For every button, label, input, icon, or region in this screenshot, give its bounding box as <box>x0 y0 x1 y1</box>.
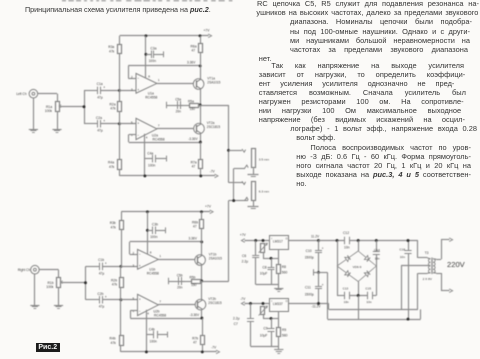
connector Left Ch input <box>29 89 38 98</box>
capacitor C6 2.2u <box>252 241 259 285</box>
svg-text:560: 560 <box>282 271 288 275</box>
svg-text:Left Ch: Left Ch <box>16 92 27 96</box>
svg-text:O: O <box>286 237 288 240</box>
node +7V label psu <box>240 233 247 237</box>
wire U1b pin8 to rail <box>147 212 149 254</box>
svg-text:C14: C14 <box>374 248 380 252</box>
node U2a pin marks <box>131 120 160 139</box>
node C4b labels <box>149 328 157 344</box>
svg-text:10n: 10n <box>366 300 371 304</box>
node R5a labels <box>188 100 195 112</box>
wire bridge left vertex up <box>337 241 339 267</box>
resistor R4a 47k <box>118 124 122 176</box>
svg-text:-3.36V: -3.36V <box>188 137 198 141</box>
svg-text:150: 150 <box>191 283 197 287</box>
node junction C8 tap <box>270 257 273 260</box>
node R6a labels <box>191 44 197 52</box>
node 220V label <box>447 260 466 269</box>
wire U2b output to VT2b <box>158 304 195 306</box>
node voltage label 3.36V <box>187 60 196 64</box>
wire left channel to jacks <box>200 105 243 183</box>
svg-text:C11: C11 <box>305 285 311 289</box>
svg-text:+: + <box>137 88 139 92</box>
svg-text:−: − <box>137 133 139 137</box>
svg-text:-11.2V: -11.2V <box>311 304 321 308</box>
node VT2b labels <box>208 297 222 305</box>
node C2a labels <box>96 116 103 133</box>
svg-text:−: − <box>137 76 139 80</box>
svg-text:R9: R9 <box>282 328 286 332</box>
node junction feedback-R7a <box>199 141 202 144</box>
wire U2a output to VT2a <box>157 128 194 130</box>
capacitor C5b 20n <box>168 277 185 285</box>
capacitor C10 1500u <box>315 241 322 273</box>
svg-text:+: + <box>322 247 324 251</box>
node R4b labels <box>110 337 117 345</box>
node R7a labels <box>191 160 197 168</box>
node -7V label channel a <box>210 169 216 173</box>
wire R1b wiper to C1b/C2b <box>62 266 86 299</box>
trimmer R10 <box>259 306 268 315</box>
svg-text:3.36V: 3.36V <box>187 60 196 64</box>
regulator U4 LM337 <box>270 299 289 319</box>
svg-text:8: 8 <box>150 250 152 254</box>
svg-text:47: 47 <box>191 49 195 53</box>
svg-text:C2b: C2b <box>97 292 103 296</box>
wire psu ground stub <box>314 269 328 319</box>
svg-text:R8: R8 <box>282 265 286 269</box>
svg-text:+7V: +7V <box>205 205 212 209</box>
wire bridge bottom <box>337 266 377 296</box>
resistor R6b 47 <box>200 212 204 242</box>
node bridge label VD6-9 <box>353 265 362 269</box>
node -11.2V label <box>311 304 321 308</box>
node R3b labels <box>110 221 116 229</box>
node R3a labels <box>108 45 114 53</box>
svg-text:+: + <box>322 283 324 287</box>
connector XS1 jack 3.5 mm <box>242 149 256 169</box>
node junction C11 bottom <box>317 302 320 305</box>
ground pot R1b <box>54 287 63 309</box>
wire primary top to mains <box>436 238 452 260</box>
svg-text:10n: 10n <box>375 257 380 261</box>
resistor R5b 150 <box>185 280 202 284</box>
svg-text:100k: 100k <box>46 285 54 289</box>
transistor VT1b 2SA1015 <box>195 242 206 281</box>
svg-text:1: 1 <box>159 254 161 258</box>
node junction rail-U2b pin4 <box>145 350 148 353</box>
diode VD6 <box>337 251 358 266</box>
wire raw dc top <box>319 240 418 242</box>
capacitor C2b <box>86 295 121 304</box>
svg-text:2 X 8V: 2 X 8V <box>423 277 433 281</box>
node voltage label -3.36V <box>188 137 198 141</box>
wire U1a feedback <box>128 66 200 79</box>
svg-text:10n: 10n <box>344 300 349 304</box>
wire U2a pin4 to rail <box>144 134 146 176</box>
svg-text:C15: C15 <box>365 286 371 290</box>
svg-text:+: + <box>105 295 107 299</box>
node C1b labels <box>98 258 104 275</box>
svg-text:C2a: C2a <box>96 116 102 120</box>
node junction C14 top <box>375 239 378 242</box>
node C3a labels <box>149 47 157 63</box>
node VT1a labels <box>207 76 220 84</box>
capacitor C14 10n <box>373 241 380 267</box>
wire +7V rail channel b <box>121 210 213 214</box>
svg-text:C1b: C1b <box>98 258 104 262</box>
node junction psu ground mid <box>317 271 320 274</box>
node U2a name labels <box>152 134 165 142</box>
svg-text:1500µ: 1500µ <box>305 292 314 296</box>
diode VD7 <box>358 251 376 266</box>
svg-text:C5b: C5b <box>177 273 183 277</box>
svg-text:100k: 100k <box>45 109 53 113</box>
svg-text:47k: 47k <box>110 107 116 111</box>
node +7V label channel b <box>205 205 212 209</box>
svg-text:+: + <box>137 122 139 126</box>
node junction bridge top <box>357 239 360 242</box>
wire to U2b pin5 <box>121 299 138 301</box>
wire to U1b pin3 <box>121 266 138 268</box>
capacitor C1b <box>86 262 121 271</box>
svg-text:C13: C13 <box>343 286 349 290</box>
op-amp U2b RC4558 <box>138 294 159 315</box>
svg-text:C9: C9 <box>263 326 267 330</box>
ground input connector a <box>29 98 38 133</box>
svg-text:150: 150 <box>190 107 196 111</box>
node voltage label 3.36V <box>189 236 198 240</box>
trimmer R7 <box>259 243 268 253</box>
op-amp U2a RC4558 <box>136 118 157 139</box>
svg-text:+: + <box>139 264 141 268</box>
transistor VT2a 2SC1815 <box>194 105 205 142</box>
node junction C1a-R2a <box>118 89 121 92</box>
node C7 labels <box>233 317 240 326</box>
svg-text:2.2µ: 2.2µ <box>233 317 240 321</box>
node VT2a labels <box>207 121 221 129</box>
wire ground bus <box>328 309 421 319</box>
node junction rail-R6a <box>199 34 202 37</box>
figure label Рис.2 <box>36 343 60 353</box>
svg-text:R3b: R3b <box>110 221 116 225</box>
wire +7V rail channel a <box>120 34 212 38</box>
svg-text:47k: 47k <box>112 283 118 287</box>
svg-text:1500µ: 1500µ <box>305 256 314 260</box>
resistor R8 560 <box>277 258 281 284</box>
node C12 labels <box>343 231 350 249</box>
svg-text:47: 47 <box>192 165 196 169</box>
wire psu ground rail top <box>256 284 279 286</box>
svg-text:8: 8 <box>148 74 150 78</box>
capacitor C4a 100n <box>145 155 167 163</box>
ground jack2 <box>248 201 259 209</box>
node R8 labels <box>282 265 288 275</box>
node 2x8V label <box>423 277 433 281</box>
svg-text:10n: 10n <box>400 255 405 259</box>
svg-text:RC4558: RC4558 <box>145 96 157 100</box>
svg-text:100n: 100n <box>149 59 157 63</box>
ground pot R1a <box>52 111 61 133</box>
node junction C6 top <box>254 239 257 242</box>
node junction C2b-R2b <box>119 298 122 301</box>
svg-text:C10: C10 <box>306 249 312 253</box>
node voltage label -3.36V <box>190 313 200 317</box>
svg-text:-7V: -7V <box>211 345 217 349</box>
wire to U1a pin3 <box>119 90 136 92</box>
diode VD8 <box>337 266 358 282</box>
node junction R10 trimmer top <box>262 302 265 305</box>
svg-text:C8: C8 <box>262 266 266 270</box>
svg-text:7: 7 <box>159 299 161 303</box>
wire U1b output to VT1b <box>158 259 194 261</box>
wire bridge top vertex up <box>358 241 360 252</box>
resistor R7a 47 <box>199 142 203 176</box>
node C10 labels <box>305 247 324 260</box>
wire +7V output <box>241 239 269 243</box>
svg-text:47k: 47k <box>111 226 117 230</box>
svg-text:47: 47 <box>193 341 197 345</box>
wire -11.2V bus <box>329 273 418 309</box>
svg-text:T3: T3 <box>425 251 429 255</box>
svg-text:-7V: -7V <box>240 297 246 301</box>
svg-text:+: + <box>103 119 105 123</box>
wire U1a output to VT1a <box>157 83 193 85</box>
node C5b labels <box>177 273 183 289</box>
node jack1 label 3.5 mm <box>259 157 270 161</box>
node junction C18-ground bus <box>407 318 410 321</box>
node junction rail-R6b <box>200 210 203 213</box>
cut-off text remnants at top edge <box>62 0 232 1</box>
wire -7V rail channel b <box>121 350 220 354</box>
wire jack1 tip <box>229 150 243 152</box>
node Left Ch label <box>16 92 27 96</box>
node junction rail-R7a <box>199 174 202 177</box>
node junction rail-U1b supply <box>146 210 149 213</box>
node junction C2a-R2a <box>118 122 121 125</box>
svg-text:3.5 mm: 3.5 mm <box>259 157 270 161</box>
node junction C18 top <box>407 239 410 242</box>
svg-text:100n: 100n <box>150 339 158 343</box>
svg-text:10n: 10n <box>344 245 350 249</box>
svg-text:RC4558: RC4558 <box>153 138 165 142</box>
svg-text:47k: 47k <box>111 341 117 345</box>
svg-text:R5a: R5a <box>188 100 194 104</box>
node C6 labels <box>242 254 249 264</box>
node C9 labels <box>260 326 268 337</box>
svg-text:47: 47 <box>193 225 197 229</box>
transistor VT1a 2SA1015 <box>193 66 204 105</box>
capacitor C12 10n <box>345 237 350 245</box>
node C5a labels <box>175 97 181 113</box>
svg-text:2.2µ: 2.2µ <box>242 259 249 263</box>
svg-text:560: 560 <box>282 333 288 337</box>
svg-text:LM317: LM317 <box>273 240 283 244</box>
wire input to pot R1a <box>38 94 58 102</box>
diode VD9 <box>358 266 376 282</box>
node U1b pin marks <box>133 250 162 268</box>
svg-text:7: 7 <box>158 123 160 127</box>
svg-text:20n: 20n <box>177 286 183 290</box>
svg-text:+: + <box>103 86 105 90</box>
node junction rail-U2a pin4 <box>143 174 146 177</box>
header caption <box>25 5 211 14</box>
node C3b labels <box>150 223 158 239</box>
node junction C1b-R2b <box>119 265 122 268</box>
wire right channel to jacks <box>202 169 248 282</box>
svg-text:4: 4 <box>146 136 148 140</box>
potentiometer R1a <box>56 102 63 112</box>
node junction rail-U1a supply <box>144 34 147 37</box>
node R1a value label <box>45 105 53 113</box>
wire LM337 input <box>289 303 329 305</box>
node C2b labels <box>97 292 104 309</box>
node Right Ch label <box>18 268 31 272</box>
svg-text:11.2V: 11.2V <box>311 234 320 238</box>
svg-text:10µF: 10µF <box>260 334 268 338</box>
potentiometer R1b <box>57 278 64 288</box>
op-amp U1a RC4558 <box>136 73 157 93</box>
node output junction b <box>200 280 203 283</box>
svg-text:C4b: C4b <box>149 328 155 332</box>
svg-text:6.3 mm: 6.3 mm <box>259 190 270 194</box>
svg-text:1: 1 <box>158 78 160 82</box>
wire LM317 input <box>289 240 319 242</box>
wire input to pot R1b <box>39 270 58 278</box>
svg-text:220V: 220V <box>447 260 466 269</box>
capacitor C4b 100n <box>146 331 168 339</box>
svg-text:C5a: C5a <box>175 97 181 101</box>
svg-text:2SC1815: 2SC1815 <box>208 301 222 305</box>
node C4a labels <box>147 152 155 168</box>
capacitor C8 10uF <box>268 258 275 284</box>
node junction R7 trimmer top <box>262 239 265 242</box>
svg-text:C12: C12 <box>343 231 349 235</box>
node C13 labels <box>343 286 349 304</box>
svg-text:Right Ch: Right Ch <box>18 268 31 272</box>
capacitor C11 1500u <box>315 272 322 303</box>
svg-text:LM337: LM337 <box>273 302 283 306</box>
svg-text:−: − <box>139 309 141 313</box>
svg-text:+7V: +7V <box>240 233 247 237</box>
node U1b name labels <box>147 268 159 276</box>
op-amp U1b RC4558 <box>138 249 159 269</box>
transformer T3 <box>427 258 436 275</box>
capacitor C5a 20n <box>167 101 184 109</box>
resistor R4b 47k <box>120 300 124 352</box>
resistor R3b 47k <box>120 212 124 267</box>
node 11.2V label <box>311 234 320 238</box>
node R2a labels <box>110 102 116 110</box>
svg-text:-7V: -7V <box>210 169 216 173</box>
resistor R5a 150 <box>183 104 200 108</box>
capacitor C13 10n <box>345 292 350 300</box>
node junction C9 tap <box>270 317 273 320</box>
node junction jack2 ring <box>232 199 235 202</box>
svg-text:R3a: R3a <box>108 45 114 49</box>
svg-text:VD6-9: VD6-9 <box>353 265 362 269</box>
wire U2a feedback <box>129 135 201 143</box>
resistor R7b 47 <box>201 318 205 352</box>
svg-text:100n: 100n <box>148 163 156 167</box>
node junction C3a tap <box>144 53 147 56</box>
wire to U2a pin5 <box>119 123 136 125</box>
svg-text:-3.36V: -3.36V <box>190 313 200 317</box>
svg-text:4: 4 <box>147 312 149 316</box>
node wiper junction b <box>84 281 87 284</box>
capacitor C9 10uF <box>268 318 275 346</box>
wire bridge bottom to lower bus <box>358 296 360 320</box>
node junction feedback-R6b <box>200 240 203 243</box>
node R1b value label <box>46 281 54 289</box>
resistor R2b 47k <box>120 266 124 299</box>
node R5b labels <box>190 276 197 288</box>
node C11 labels <box>305 283 324 297</box>
svg-text:R5b: R5b <box>190 276 196 280</box>
svg-text:47k: 47k <box>109 50 115 54</box>
svg-text:C3a: C3a <box>150 47 156 51</box>
svg-text:−: − <box>139 252 141 256</box>
capacitor C2a <box>84 119 119 128</box>
node output junction a <box>199 104 202 107</box>
node T3 label <box>425 251 429 255</box>
node R4a labels <box>108 161 115 169</box>
svg-text:C18: C18 <box>399 248 405 252</box>
node U2b name labels <box>153 310 166 318</box>
svg-text:C3b: C3b <box>152 223 158 227</box>
wire primary bottom to mains <box>436 273 452 293</box>
wire trimmer R10 to ADJ <box>263 315 279 319</box>
node junction bridge left top <box>336 239 339 242</box>
node -7V label psu <box>240 297 246 301</box>
node jack2 label 6.3 mm <box>259 190 270 194</box>
svg-text:47µ: 47µ <box>99 271 105 275</box>
svg-text:O: O <box>286 300 288 303</box>
node C8 labels <box>260 266 268 276</box>
node C14 labels <box>374 248 380 261</box>
svg-text:20n: 20n <box>176 110 182 114</box>
capacitor C3a 100n <box>146 51 164 59</box>
node R7b labels <box>192 336 198 344</box>
wire transformer secondary leads <box>418 241 428 274</box>
node +7V label channel a <box>204 29 211 33</box>
resistor R3a 47k <box>118 36 122 91</box>
svg-text:+: + <box>105 262 107 266</box>
wire psu ground rail bottom <box>251 346 279 348</box>
svg-text:3.36V: 3.36V <box>189 236 198 240</box>
wire T3 center tap <box>401 266 430 310</box>
resistor R2a 47k <box>118 90 122 123</box>
svg-text:10µF: 10µF <box>260 271 268 275</box>
node R9 labels <box>282 328 288 338</box>
svg-text:C1a: C1a <box>97 82 103 86</box>
capacitor C15 10n <box>368 292 373 300</box>
node junction C10 top <box>317 239 320 242</box>
ground input connector b <box>30 274 39 309</box>
node R2b labels <box>111 278 117 286</box>
node C1a labels <box>97 82 103 99</box>
svg-text:47µ: 47µ <box>97 95 103 99</box>
svg-text:RC4558: RC4558 <box>154 314 166 318</box>
wire U1b feedback <box>130 242 202 255</box>
resistor R6a 47 <box>199 36 203 66</box>
svg-text:47k: 47k <box>109 165 115 169</box>
wire U2b feedback <box>130 311 202 319</box>
ground jack1 <box>248 168 259 176</box>
ground psu bottom <box>274 346 283 353</box>
capacitor C7 2.2u <box>247 304 254 347</box>
svg-text:2SA1015: 2SA1015 <box>209 256 222 260</box>
